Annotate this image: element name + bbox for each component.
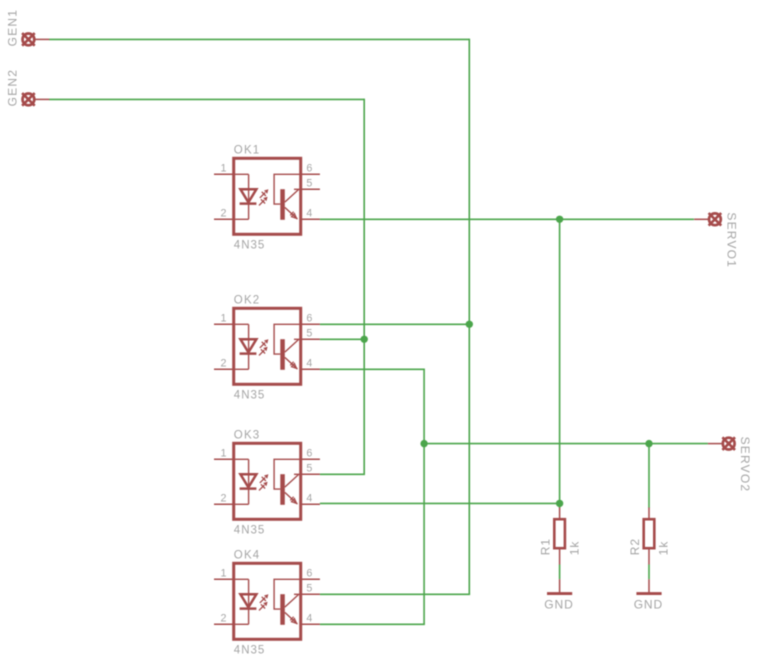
OK2 pin 4 lead	[301, 368, 320, 370]
svg-text:R2: R2	[628, 538, 642, 555]
OK3 light arrows	[259, 474, 268, 490]
optocoupler OK4 (4N35)	[214, 550, 320, 657]
ground GND (1)	[544, 579, 573, 611]
OK2 phototransistor	[274, 324, 301, 370]
svg-text:OK2: OK2	[234, 295, 261, 307]
wire net GEN1 horizontal	[49, 38, 469, 40]
R2 bottom pin	[648, 548, 650, 564]
OK1 LED	[234, 174, 257, 219]
wire net GEN2 horizontal	[49, 98, 364, 100]
OK4 pin 4 lead	[301, 623, 320, 625]
pad SERVO2	[708, 437, 735, 450]
OK1 pin 4 lead	[301, 218, 320, 220]
OK4 LED	[234, 579, 257, 624]
svg-text:6: 6	[306, 447, 312, 459]
svg-text:1k: 1k	[567, 541, 581, 556]
OK1 light arrows	[259, 189, 268, 205]
wire net GEN2 to OK2 pin 5	[320, 338, 364, 340]
wire net SERVO2 horizontal	[424, 443, 708, 445]
svg-text:1: 1	[221, 567, 227, 579]
optocoupler OK2 (4N35)	[214, 295, 320, 402]
svg-text:4N35: 4N35	[234, 390, 265, 402]
svg-text:1k: 1k	[657, 541, 671, 556]
OK1 pin 5 lead	[301, 188, 320, 190]
OK2 box	[234, 308, 301, 384]
OK2 pin 6 lead	[301, 323, 320, 325]
OK4 light arrows	[259, 594, 268, 610]
svg-text:5: 5	[306, 582, 312, 594]
R2 top pin	[648, 508, 650, 520]
OK4 pin 6 lead	[301, 578, 320, 580]
junction SERVO1/R1 tap	[556, 216, 563, 223]
OK1 phototransistor	[274, 174, 301, 220]
wire net SERVO2 OK4 pin 4	[320, 623, 425, 625]
svg-text:4N35: 4N35	[234, 645, 265, 657]
svg-text:4N35: 4N35	[234, 525, 265, 537]
optocoupler OK1 (4N35)	[214, 145, 320, 252]
pad SERVO1	[694, 213, 721, 226]
svg-text:6: 6	[306, 162, 312, 174]
junction GEN2/OK2 pin 5	[361, 336, 368, 343]
R2 body	[644, 519, 655, 548]
svg-text:R1: R1	[539, 538, 553, 555]
svg-text:4: 4	[306, 612, 312, 624]
svg-text:4: 4	[306, 207, 312, 219]
OK3 pin 4 lead	[301, 503, 320, 505]
wire net GEN2 to OK3 pin 5	[320, 473, 365, 475]
OK3 pin 5 lead	[301, 473, 320, 475]
svg-text:OK1: OK1	[234, 145, 261, 157]
OK3 pin 6 lead	[301, 458, 320, 460]
OK3 LED	[234, 459, 257, 504]
svg-text:5: 5	[306, 177, 312, 189]
svg-text:GND: GND	[634, 598, 663, 612]
wire net SERVO1 R1 stub	[559, 503, 561, 508]
wire net SERVO2 R2 drop	[648, 444, 650, 508]
OK1 box	[234, 158, 301, 234]
wire net SERVO1 OK3 pin 4	[320, 502, 560, 504]
svg-text:OK3: OK3	[234, 430, 261, 442]
OK1 pin 6 lead	[301, 173, 320, 175]
OK1 pin 2 lead	[214, 218, 234, 220]
svg-text:2: 2	[221, 492, 227, 504]
OK1 pin numbers	[221, 162, 313, 219]
wire GND net R2	[648, 565, 650, 580]
svg-text:5: 5	[306, 327, 312, 339]
junction SERVO2/OK2 pin 4	[420, 440, 427, 447]
wire GND net R1	[559, 565, 561, 580]
OK3 pin 1 lead	[214, 458, 234, 460]
OK1 pin 1 lead	[214, 173, 234, 175]
R1 bottom pin	[559, 548, 561, 564]
svg-text:OK4: OK4	[234, 550, 261, 562]
junction SERVO2/R2 tap	[645, 440, 652, 447]
junction GEN1/OK2 pin 6	[466, 321, 473, 328]
resistor R1 (1k)	[539, 508, 582, 565]
svg-text:2: 2	[221, 357, 227, 369]
OK3 pin numbers	[221, 447, 313, 504]
OK3 phototransistor	[274, 459, 301, 505]
pad GEN2	[22, 93, 49, 106]
svg-text:1: 1	[221, 162, 227, 174]
junction SERVO1/OK3 pin 4/R1	[556, 500, 563, 507]
wire net GEN1 vertical	[468, 39, 470, 595]
svg-text:4: 4	[306, 357, 312, 369]
OK4 box	[234, 563, 301, 639]
OK2 LED	[234, 324, 257, 369]
OK2 pin 5 lead	[301, 338, 320, 340]
svg-text:1: 1	[221, 312, 227, 324]
OK2 light arrows	[259, 339, 268, 355]
svg-text:GEN2: GEN2	[5, 69, 19, 106]
OK4 pin numbers	[221, 567, 313, 624]
svg-text:GND: GND	[544, 598, 573, 612]
OK4 phototransistor	[274, 579, 301, 625]
wire net GEN2 vertical	[363, 99, 365, 475]
pad GEN1	[22, 33, 49, 46]
wire net SERVO1 vertical to R1	[559, 219, 561, 503]
wire net SERVO2 vertical	[423, 369, 425, 625]
wire net GEN1 to OK2 pin 6	[320, 323, 469, 325]
ground GND (2)	[634, 579, 663, 611]
OK4 pin 2 lead	[214, 623, 234, 625]
R1 top pin	[559, 508, 561, 520]
svg-text:2: 2	[221, 612, 227, 624]
svg-text:6: 6	[306, 567, 312, 579]
svg-text:6: 6	[306, 312, 312, 324]
OK4 pin 1 lead	[214, 578, 234, 580]
optocoupler OK3 (4N35)	[214, 430, 320, 537]
svg-text:2: 2	[221, 207, 227, 219]
OK2 pin numbers	[221, 312, 313, 369]
OK4 pin 5 lead	[301, 593, 320, 595]
svg-text:SERVO1: SERVO1	[724, 212, 738, 268]
svg-text:4N35: 4N35	[234, 240, 265, 252]
svg-text:GEN1: GEN1	[5, 9, 19, 46]
OK2 pin 2 lead	[214, 368, 234, 370]
svg-text:SERVO2: SERVO2	[738, 437, 752, 493]
svg-text:5: 5	[306, 462, 312, 474]
OK3 box	[234, 443, 301, 519]
OK3 pin 2 lead	[214, 503, 234, 505]
svg-text:4: 4	[306, 492, 312, 504]
wire net SERVO1 horizontal	[320, 218, 694, 220]
R1 body	[554, 519, 565, 548]
resistor R2 (1k)	[628, 508, 671, 565]
wire net SERVO2 OK2 pin 4	[320, 368, 424, 370]
wire net GEN1 to OK4 pin 5	[320, 593, 470, 595]
svg-text:1: 1	[221, 447, 227, 459]
OK2 pin 1 lead	[214, 323, 234, 325]
